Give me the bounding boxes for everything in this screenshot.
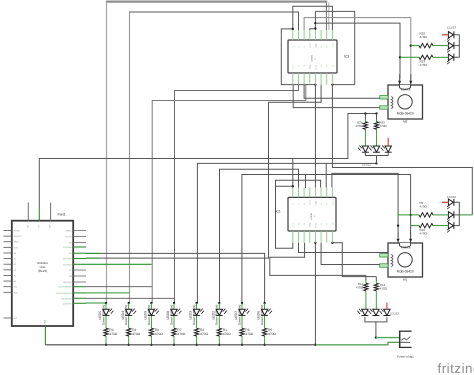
svg-text:fritzing: fritzing xyxy=(438,361,474,375)
node junction xyxy=(292,28,294,30)
wire xyxy=(106,2,108,303)
LED LED10 label xyxy=(447,195,457,199)
svg-text:GND: GND xyxy=(314,200,317,205)
node junction xyxy=(314,83,316,85)
svg-text:D12/MISO: D12/MISO xyxy=(62,297,72,300)
svg-text:IC1: IC1 xyxy=(276,210,281,214)
wire xyxy=(314,85,316,188)
wire xyxy=(328,3,330,31)
svg-text:VCC2: VCC2 xyxy=(314,223,317,228)
wire xyxy=(276,185,293,187)
svg-text:D13/SCK: D13/SCK xyxy=(63,302,72,305)
wire xyxy=(293,6,333,30)
svg-text:(Rev3): (Rev3) xyxy=(38,269,47,273)
node junction xyxy=(399,56,401,58)
svg-text:470Ω: 470Ω xyxy=(380,287,388,291)
LED LED13 label xyxy=(447,26,457,30)
LED LED10c xyxy=(447,222,454,232)
wire xyxy=(175,85,299,303)
LED LED11a xyxy=(358,145,369,152)
svg-text:GND: GND xyxy=(314,43,317,48)
wire xyxy=(314,243,316,345)
svg-text:L293D: L293D xyxy=(311,55,314,62)
svg-text:GND: GND xyxy=(43,319,46,324)
svg-text:470Ω: 470Ω xyxy=(155,332,164,336)
svg-text:LED13: LED13 xyxy=(447,26,457,30)
LED LED7 Green 565nm xyxy=(234,302,249,326)
svg-text:470Ω: 470Ω xyxy=(268,332,277,336)
svg-text:VCC2: VCC2 xyxy=(309,200,312,205)
svg-text:VCC1: VCC1 xyxy=(331,43,334,48)
wire xyxy=(86,85,321,259)
svg-text:RESET2: RESET2 xyxy=(14,235,23,238)
resistor R8 470 ohm xyxy=(149,326,163,346)
wire xyxy=(305,175,307,189)
wire xyxy=(86,263,152,265)
node junction xyxy=(314,22,316,24)
node junction xyxy=(314,27,316,29)
svg-text:D6 PWM: D6 PWM xyxy=(63,263,72,266)
LED LED13b xyxy=(447,42,454,52)
motor driver module M1 ROB-09420 xyxy=(380,232,423,281)
wire xyxy=(86,286,152,288)
LED LED11c xyxy=(381,145,392,152)
svg-text:D0/RX: D0/RX xyxy=(65,229,72,232)
svg-text:N/C: N/C xyxy=(14,317,18,320)
resistor R10 470 ohm xyxy=(411,223,449,235)
node junction xyxy=(364,112,366,114)
svg-text:LED12: LED12 xyxy=(390,311,400,315)
resistor R12 470 ohm xyxy=(374,277,388,310)
wire LED13 right bus xyxy=(455,35,460,58)
wire xyxy=(321,243,390,265)
LED LED12a xyxy=(358,309,369,316)
wire xyxy=(293,85,390,108)
wire xyxy=(152,85,306,303)
svg-text:Green (565nm): Green (565nm) xyxy=(192,305,196,325)
microcontroller Part1 Arduino Uno body xyxy=(12,203,73,345)
wire xyxy=(86,302,106,304)
svg-text:LED10: LED10 xyxy=(447,195,457,199)
resistor R11 470 ohm xyxy=(356,275,368,309)
wire xyxy=(197,163,376,303)
LED LED11b xyxy=(369,145,380,152)
svg-text:L293D: L293D xyxy=(310,212,313,219)
resistor R26 470 ohm xyxy=(411,32,449,48)
wire xyxy=(220,169,299,303)
resistor R23 470 ohm xyxy=(400,55,448,67)
svg-text:GND: GND xyxy=(309,64,312,69)
motor driver module M2 ROB-09420 xyxy=(380,74,423,123)
LED LED4 Green 565nm xyxy=(121,302,136,326)
Arduino left pins xyxy=(4,230,23,321)
wire xyxy=(314,11,316,30)
svg-text:D3 PWM: D3 PWM xyxy=(63,246,72,249)
resistor R5 470 ohm xyxy=(262,326,276,346)
node junction xyxy=(409,214,411,216)
node junction xyxy=(375,162,377,164)
LED LED10a xyxy=(447,199,454,209)
resistor R4 470 ohm xyxy=(104,326,118,346)
svg-text:AREF: AREF xyxy=(14,241,20,244)
LED LED5 Green 565nm xyxy=(98,302,113,326)
wire red stub xyxy=(387,138,389,146)
wire xyxy=(332,84,354,86)
LED LED10b xyxy=(447,211,454,221)
wire ground bus xyxy=(45,344,316,346)
svg-text:470Ω: 470Ω xyxy=(223,332,232,336)
LED LED12b xyxy=(369,309,380,316)
LED LED12c xyxy=(380,309,391,316)
wire xyxy=(129,12,299,30)
svg-text:D10 PWM/SS: D10 PWM/SS xyxy=(59,286,72,289)
wire xyxy=(325,163,327,187)
LED LED9 Green 565nm xyxy=(144,302,159,326)
wire xyxy=(299,243,391,253)
svg-text:VCC1: VCC1 xyxy=(331,200,334,205)
svg-text:470Ω: 470Ω xyxy=(245,332,254,336)
Arduino right pins xyxy=(56,229,86,305)
connector Power plug1 xyxy=(376,331,414,359)
svg-text:470Ω: 470Ω xyxy=(177,332,186,336)
LED LED2 Green 565nm xyxy=(211,302,226,326)
node junction xyxy=(397,224,399,226)
wire LED11 bottom bus xyxy=(365,152,388,163)
svg-text:M1: M1 xyxy=(403,278,407,282)
svg-text:Green (565nm): Green (565nm) xyxy=(101,305,105,325)
svg-text:VCC1: VCC1 xyxy=(292,65,295,70)
svg-text:470Ω: 470Ω xyxy=(420,205,428,209)
wire red stub xyxy=(386,303,388,310)
wire xyxy=(39,114,376,209)
wire xyxy=(86,257,100,259)
wire xyxy=(86,253,265,303)
svg-text:470Ω: 470Ω xyxy=(420,232,428,236)
wire xyxy=(310,29,316,30)
svg-text:RESET: RESET xyxy=(14,230,22,233)
LED LED13a xyxy=(447,31,454,41)
wire xyxy=(332,85,472,215)
svg-text:SDA: SDA xyxy=(14,291,19,294)
svg-text:LED11: LED11 xyxy=(362,163,371,167)
svg-text:ioref: ioref xyxy=(14,246,18,249)
resistor R3 470 ohm xyxy=(127,326,141,346)
wire red stub xyxy=(442,201,449,203)
svg-text:470Ω: 470Ω xyxy=(420,63,428,67)
node junction xyxy=(410,44,412,46)
svg-text:M2: M2 xyxy=(403,120,407,124)
resistor R2 470 ohm xyxy=(194,326,208,346)
svg-text:IC3: IC3 xyxy=(344,55,349,59)
wire xyxy=(292,186,294,188)
resistor R7 470 ohm xyxy=(172,326,186,346)
resistor R1 470 ohm xyxy=(217,326,231,346)
wire xyxy=(292,159,294,187)
wire xyxy=(332,243,376,277)
svg-text:Green (565nm): Green (565nm) xyxy=(124,305,128,325)
svg-text:470Ω: 470Ω xyxy=(355,124,363,128)
svg-text:Green (565nm): Green (565nm) xyxy=(215,305,219,325)
node junction xyxy=(375,112,377,114)
node junction xyxy=(375,336,377,338)
resistor R25 470 ohm xyxy=(374,114,387,147)
wire xyxy=(315,23,400,79)
wire LED10 right bus xyxy=(455,202,460,225)
IC U-IC3 H-bridge chip xyxy=(288,30,349,85)
wire ground bus green xyxy=(316,342,399,345)
resistor R9 470 ohm xyxy=(398,201,448,217)
svg-text:ROB-09420: ROB-09420 xyxy=(397,270,414,274)
svg-text:D11 PWM/MOSI: D11 PWM/MOSI xyxy=(56,292,72,295)
IC U-IC1 H-bridge chip xyxy=(276,188,337,243)
svg-text:VIN: VIN xyxy=(49,224,52,228)
svg-text:ROB-09420: ROB-09420 xyxy=(397,112,414,116)
wire xyxy=(86,297,175,299)
node junction xyxy=(314,242,316,244)
svg-text:VCC1: VCC1 xyxy=(292,223,295,228)
wire xyxy=(332,173,398,237)
wire xyxy=(129,12,131,303)
node junction xyxy=(292,185,294,187)
LED LED12 label xyxy=(390,311,400,315)
wire LED12 bottom bus xyxy=(365,317,387,338)
wire xyxy=(270,243,366,276)
svg-text:470Ω: 470Ω xyxy=(109,332,118,336)
wire red stub xyxy=(442,34,449,36)
svg-text:VCC2: VCC2 xyxy=(309,43,312,48)
svg-text:D5 PWM: D5 PWM xyxy=(63,258,72,261)
wire xyxy=(276,180,321,248)
svg-text:Green (565nm): Green (565nm) xyxy=(169,305,173,325)
wire xyxy=(325,3,327,31)
node junction xyxy=(331,83,333,85)
svg-text:Green (565nm): Green (565nm) xyxy=(147,305,151,325)
wire xyxy=(460,214,472,216)
LED LED13c xyxy=(447,54,454,64)
svg-text:470Ω: 470Ω xyxy=(379,124,387,128)
svg-text:Part1: Part1 xyxy=(58,213,66,217)
svg-text:470Ω: 470Ω xyxy=(420,35,428,39)
svg-text:470Ω: 470Ω xyxy=(200,332,209,336)
svg-text:Green (565nm): Green (565nm) xyxy=(237,305,241,325)
svg-text:GND: GND xyxy=(309,222,312,227)
svg-text:D1/TX: D1/TX xyxy=(66,235,73,238)
svg-text:470Ω: 470Ω xyxy=(132,332,141,336)
wire xyxy=(86,252,100,254)
svg-text:Green (565nm): Green (565nm) xyxy=(260,305,264,325)
wire xyxy=(304,18,411,80)
wire xyxy=(86,292,130,294)
LED LED11 label xyxy=(362,163,371,167)
wire xyxy=(242,175,411,304)
resistor R6 470 ohm xyxy=(240,326,254,346)
fritzing watermark xyxy=(438,361,474,375)
svg-text:D9 PWM: D9 PWM xyxy=(63,281,72,284)
resistor R24 470 ohm xyxy=(355,114,367,147)
wire xyxy=(315,11,354,84)
LED LED8 Green 565nm xyxy=(166,302,181,326)
wire xyxy=(106,1,327,3)
svg-text:Power plug1: Power plug1 xyxy=(397,355,414,359)
svg-text:VCC2: VCC2 xyxy=(314,65,317,70)
node junction xyxy=(331,242,333,244)
svg-text:470Ω: 470Ω xyxy=(356,286,364,290)
wire xyxy=(304,85,390,99)
LED LED6 Green 565nm xyxy=(257,302,272,326)
node junction xyxy=(314,344,316,346)
LED LED3 Green 565nm xyxy=(189,302,204,326)
wire xyxy=(281,29,315,85)
